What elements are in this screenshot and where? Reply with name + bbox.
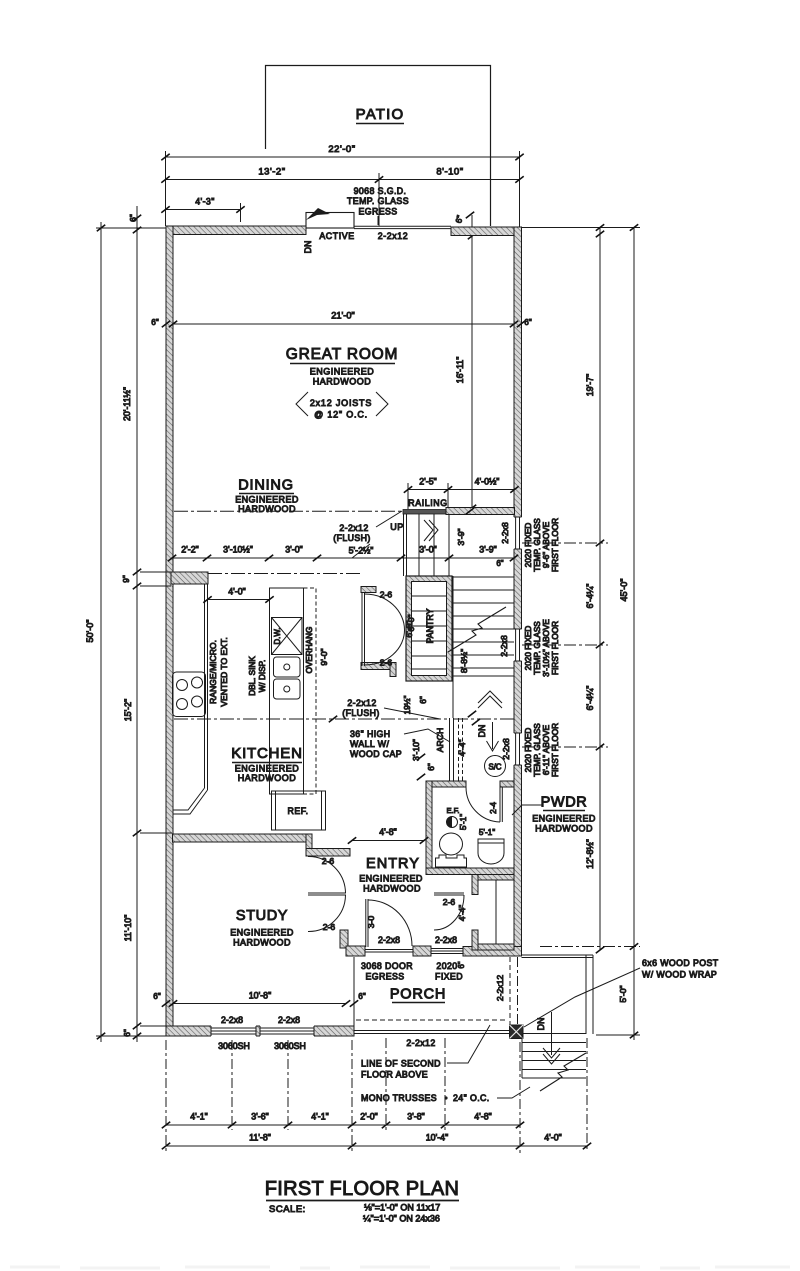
leader 36in wall xyxy=(404,729,450,742)
svg-text:3'-10½": 3'-10½" xyxy=(223,545,253,555)
svg-text:ENGINEERED: ENGINEERED xyxy=(310,367,375,377)
svg-text:D.W.: D.W. xyxy=(273,628,282,645)
svg-text:TEMP. GLASS: TEMP. GLASS xyxy=(533,518,542,572)
svg-text:HARDWOOD: HARDWOOD xyxy=(535,824,593,834)
sink basin 1 xyxy=(274,657,301,677)
svg-text:VENTED TO EXT.: VENTED TO EXT. xyxy=(219,637,229,706)
svg-text:4'-3": 4'-3" xyxy=(195,197,215,207)
svg-text:HARDWOOD: HARDWOOD xyxy=(238,504,296,514)
dim 6" right top segment ticks xyxy=(596,231,604,237)
svg-text:2-2x8: 2-2x8 xyxy=(500,522,510,544)
right ext line bottom building xyxy=(540,946,640,948)
right ext stubs dashdot xyxy=(522,542,608,544)
left ext stubs xyxy=(140,571,171,573)
wall closet top xyxy=(478,875,514,881)
powder toilet tank xyxy=(436,855,467,867)
svg-text:2-2x8: 2-2x8 xyxy=(435,935,457,945)
svg-text:FIRST FLOOR: FIRST FLOOR xyxy=(551,518,560,572)
patio outline xyxy=(266,66,491,227)
svg-text:2-6: 2-6 xyxy=(443,897,456,907)
svg-text:6'-0": 6'-0" xyxy=(406,614,416,631)
svg-text:6'-11" ABOVE: 6'-11" ABOVE xyxy=(542,724,551,775)
svg-text:13'-2": 13'-2" xyxy=(258,167,285,178)
svg-text:2-4: 2-4 xyxy=(489,802,498,814)
window right 2020 no1 xyxy=(514,517,523,549)
wall closet bottom xyxy=(478,944,514,950)
stair up chevron xyxy=(478,691,502,703)
svg-text:2-2x8: 2-2x8 xyxy=(499,635,509,657)
leader flush kitchen xyxy=(384,708,440,719)
leader flush dining down xyxy=(352,544,370,558)
svg-text:9'-0": 9'-0" xyxy=(319,648,329,665)
svg-text:2-2x8: 2-2x8 xyxy=(378,935,400,945)
leader wood post xyxy=(524,968,640,1027)
svg-text:ACTIVE: ACTIVE xyxy=(319,231,354,241)
dim line 4'-3" xyxy=(166,209,241,211)
wall study top jog xyxy=(306,834,312,856)
wall 36in high wall xyxy=(449,718,451,781)
burner 4 xyxy=(192,696,203,707)
svg-text:PORCH: PORCH xyxy=(390,987,446,1003)
svg-text:SCALE:: SCALE: xyxy=(269,1204,306,1215)
svg-text:5'-2½": 5'-2½" xyxy=(349,546,374,556)
island overhang dashed xyxy=(304,588,317,794)
svg-text:@ 12" O.C.: @ 12" O.C. xyxy=(314,410,368,420)
svg-text:2020 FIXED: 2020 FIXED xyxy=(524,523,533,568)
svg-text:4'-0": 4'-0" xyxy=(544,1133,562,1143)
svg-text:3'-10½" ABOVE: 3'-10½" ABOVE xyxy=(542,619,551,677)
wall kitchen door stub bottom jog xyxy=(390,663,396,677)
dim row y558 xyxy=(172,557,514,559)
svg-text:3-0: 3-0 xyxy=(366,916,376,929)
svg-text:6": 6" xyxy=(151,318,159,327)
svg-text:2-2x12: 2-2x12 xyxy=(347,698,376,708)
svg-text:2020 FIXED: 2020 FIXED xyxy=(524,728,533,773)
left ext line top xyxy=(96,227,166,229)
svg-text:3'-8": 3'-8" xyxy=(407,1112,425,1122)
svg-text:8'-8½": 8'-8½" xyxy=(459,649,469,673)
wall railing xyxy=(403,510,446,515)
kitchen pantry door arc bottom xyxy=(365,630,405,665)
patio label underline xyxy=(356,123,404,125)
pantry shelves xyxy=(412,595,447,597)
wall study bottom xyxy=(166,1026,354,1036)
dn arrow hall xyxy=(492,722,494,749)
svg-text:6'-4¼": 6'-4¼" xyxy=(585,584,595,609)
burner 3 xyxy=(177,699,188,710)
stair break line xyxy=(448,607,506,652)
svg-text:HARDWOOD: HARDWOOD xyxy=(238,773,297,783)
svg-text:36" HIGH: 36" HIGH xyxy=(350,729,391,739)
svg-text:LINE OF SECOND: LINE OF SECOND xyxy=(361,1059,441,1069)
svg-text:PWDR: PWDR xyxy=(541,795,588,811)
svg-text:6'-4¼": 6'-4¼" xyxy=(585,686,595,711)
svg-text:4'-8": 4'-8" xyxy=(474,1112,492,1122)
svg-text:12'-8½": 12'-8½" xyxy=(585,839,595,869)
svg-text:RAILING: RAILING xyxy=(408,498,447,508)
svg-text:2-2x12: 2-2x12 xyxy=(495,975,505,1001)
svg-text:6": 6" xyxy=(496,559,503,568)
svg-text:4'-0": 4'-0" xyxy=(228,587,246,597)
dim row2 bottom xyxy=(166,1145,587,1147)
svg-text:FLOOR ABOVE: FLOOR ABOVE xyxy=(361,1070,428,1080)
sliding door panel xyxy=(306,213,354,229)
svg-text:FIRST FLOOR: FIRST FLOOR xyxy=(551,723,560,777)
porch west edge xyxy=(353,957,355,1030)
svg-text:2-2x8: 2-2x8 xyxy=(501,738,511,760)
svg-text:DBL. SINK: DBL. SINK xyxy=(248,656,257,696)
svg-text:W/ WOOD WRAP: W/ WOOD WRAP xyxy=(642,970,717,980)
dim line 22'-0" xyxy=(166,156,520,158)
sliding door flag xyxy=(306,208,330,220)
wall entry south segB xyxy=(413,946,431,956)
fridge box xyxy=(272,791,326,830)
vertical dim line 16'-11" xyxy=(471,215,473,509)
svg-text:4'-1": 4'-1" xyxy=(190,1112,208,1122)
fan symbol xyxy=(447,817,458,828)
svg-text:5'-0": 5'-0" xyxy=(618,985,628,1002)
joist arrow right xyxy=(376,392,388,416)
svg-text:FIRST FLOOR: FIRST FLOOR xyxy=(551,621,560,675)
svg-text:HARDWOOD: HARDWOOD xyxy=(233,938,291,948)
stair main east edge xyxy=(452,576,454,718)
svg-text:9068 S.G.D.: 9068 S.G.D. xyxy=(354,186,407,196)
study doors panel xyxy=(308,892,346,894)
wall powder top left xyxy=(426,781,466,787)
svg-text:HARDWOOD: HARDWOOD xyxy=(363,884,421,894)
dim extension line left wall top xyxy=(165,151,167,226)
svg-text:KITCHEN: KITCHEN xyxy=(231,745,302,762)
wall left outer xyxy=(166,226,173,1036)
railing dim lines xyxy=(407,483,409,509)
svg-text:11'-10": 11'-10" xyxy=(123,915,133,942)
svg-text:ARCH: ARCH xyxy=(435,728,445,752)
svg-text:2'-0": 2'-0" xyxy=(360,1112,378,1122)
svg-text:TEMP. GLASS: TEMP. GLASS xyxy=(533,723,542,777)
svg-text:DINING: DINING xyxy=(238,478,294,494)
svg-text:2-6: 2-6 xyxy=(322,856,335,866)
svg-text:REF.: REF. xyxy=(287,806,308,816)
svg-text:5'-1": 5'-1" xyxy=(479,828,495,837)
svg-text:24" O.C.: 24" O.C. xyxy=(453,1093,490,1103)
window entry 2020 fixed xyxy=(431,948,463,950)
dim extension line door split xyxy=(378,173,380,226)
svg-text:6": 6" xyxy=(123,1029,132,1037)
left ext line bottom xyxy=(96,1035,166,1037)
arch dashed lines xyxy=(458,718,460,781)
note leader sgd xyxy=(377,216,379,225)
joist arrow left xyxy=(296,392,308,416)
right ext line top xyxy=(522,227,641,229)
svg-text:20'-11½": 20'-11½" xyxy=(122,387,132,421)
svg-text:3060SH: 3060SH xyxy=(274,1041,306,1051)
svg-text:15'-2": 15'-2" xyxy=(123,699,133,721)
front door panel xyxy=(365,899,367,947)
svg-text:EGRESS: EGRESS xyxy=(365,972,404,982)
wall entry south segA xyxy=(346,946,365,956)
wall pantry outline xyxy=(406,576,452,681)
smoke detector xyxy=(485,756,506,777)
svg-text:3'-9": 3'-9" xyxy=(456,528,466,545)
svg-text:11'-8": 11'-8" xyxy=(249,1133,271,1143)
dim extension line right wall top xyxy=(519,151,521,227)
svg-text:50'-0": 50'-0" xyxy=(85,620,95,643)
svg-text:PANTRY: PANTRY xyxy=(425,608,435,643)
faint scanner strip xyxy=(10,1267,790,1268)
wall right outer xyxy=(514,227,522,948)
svg-text:HARDWOOD: HARDWOOD xyxy=(313,377,372,387)
study door arc top xyxy=(308,856,346,893)
svg-text:EGRESS: EGRESS xyxy=(358,207,397,217)
wall closet west stub upper xyxy=(472,875,478,895)
window study 3060SH no1 xyxy=(211,1026,256,1037)
wall top right xyxy=(451,227,522,236)
svg-text:4'-4": 4'-4" xyxy=(458,905,467,921)
stair flight1 treads xyxy=(418,514,420,576)
svg-text:DN: DN xyxy=(303,241,313,254)
svg-text:3068 DOOR: 3068 DOOR xyxy=(361,961,413,971)
kitchen pantry doors panel xyxy=(361,593,363,667)
svg-text:WALL W/: WALL W/ xyxy=(350,739,389,749)
stoop break line xyxy=(540,1053,586,1091)
svg-text:MONO TRUSSES: MONO TRUSSES xyxy=(361,1093,437,1103)
svg-text:16'-11": 16'-11" xyxy=(455,357,465,384)
closet rod xyxy=(495,880,497,944)
svg-text:FIXED: FIXED xyxy=(435,972,463,982)
counter front edge xyxy=(204,584,206,788)
svg-text:2-2x8: 2-2x8 xyxy=(278,1015,300,1025)
interior dim 21'-0 xyxy=(173,323,514,325)
svg-text:3'-0": 3'-0" xyxy=(285,545,303,555)
leader mono trusses xyxy=(497,1087,530,1098)
sliding door glass line xyxy=(354,225,451,227)
svg-text:45'-0": 45'-0" xyxy=(619,579,629,602)
pantry interior xyxy=(412,582,447,676)
svg-text:FIRST FLOOR PLAN: FIRST FLOOR PLAN xyxy=(265,1178,459,1200)
svg-text:2-2x12: 2-2x12 xyxy=(406,1038,435,1048)
powder door arc xyxy=(466,787,500,822)
svg-text:6": 6" xyxy=(419,696,428,704)
kitchen pantry door arc top xyxy=(365,594,405,630)
svg-text:(FLUSH): (FLUSH) xyxy=(333,533,371,543)
range cooktop xyxy=(173,672,206,717)
closet door panel xyxy=(434,892,464,894)
svg-text:OVERHANG: OVERHANG xyxy=(305,627,314,674)
svg-text:ENGINEERED: ENGINEERED xyxy=(235,495,299,505)
svg-text:5'-1": 5'-1" xyxy=(459,814,468,830)
left outer dim 50'-0 xyxy=(100,222,102,1042)
closet door arc xyxy=(434,895,464,930)
svg-text:ENGINEERED: ENGINEERED xyxy=(532,814,596,824)
stair flight1 chevron xyxy=(429,520,438,541)
svg-text:3'-9": 3'-9" xyxy=(479,545,497,555)
wall powder top right xyxy=(500,781,514,787)
dim row1 bottom xyxy=(166,1124,520,1126)
wall study top xyxy=(173,834,309,842)
svg-text:ENTRY: ENTRY xyxy=(366,856,420,872)
svg-text:6x6 WOOD POST: 6x6 WOOD POST xyxy=(642,958,719,968)
svg-text:S/C: S/C xyxy=(489,763,502,772)
svg-text:W/ DISP.: W/ DISP. xyxy=(258,660,267,693)
svg-text:UP: UP xyxy=(390,522,404,532)
svg-text:19½": 19½" xyxy=(403,695,412,714)
svg-text:TEMP. GLASS: TEMP. GLASS xyxy=(347,196,409,206)
wall study east lower stub xyxy=(340,930,348,948)
svg-text:PATIO: PATIO xyxy=(356,106,405,123)
svg-text:2-2x8: 2-2x8 xyxy=(221,1015,243,1025)
svg-text:2-2x12: 2-2x12 xyxy=(339,523,368,533)
right outer dim line 45'-0 xyxy=(633,228,635,1041)
svg-text:19'-7": 19'-7" xyxy=(585,374,595,396)
beam dashdot kitchen top xyxy=(208,573,360,575)
window study 3060SH no2 xyxy=(260,1026,314,1037)
svg-text:2-6: 2-6 xyxy=(380,658,393,668)
svg-text:22'-0": 22'-0" xyxy=(328,144,355,155)
svg-text:RANGE/MICRO.: RANGE/MICRO. xyxy=(208,640,218,704)
right ext line porch bottom xyxy=(596,1034,640,1036)
svg-text:DN: DN xyxy=(477,725,487,738)
second floor dashed line v1 xyxy=(509,957,511,1028)
svg-text:(FLUSH): (FLUSH) xyxy=(342,708,380,718)
svg-text:2'-2": 2'-2" xyxy=(181,545,199,555)
island outline xyxy=(270,588,304,794)
svg-text:6": 6" xyxy=(427,763,436,771)
powder sink xyxy=(478,839,504,864)
wall kitchen door stub top xyxy=(361,587,376,593)
burner 2 xyxy=(192,677,203,688)
leader flush dining up xyxy=(376,511,402,527)
svg-text:ENGINEERED: ENGINEERED xyxy=(235,764,300,774)
svg-text:2'-5": 2'-5" xyxy=(419,477,437,487)
dim 10'-8 study xyxy=(173,1003,346,1005)
dishwasher xyxy=(272,618,303,655)
svg-text:ENGINEERED: ENGINEERED xyxy=(230,928,294,938)
right inner dim line xyxy=(599,228,601,951)
wall powder bottom xyxy=(426,868,514,875)
burner 1 xyxy=(177,680,188,691)
front door arc xyxy=(368,900,412,946)
svg-text:E.F.: E.F. xyxy=(446,806,459,815)
svg-text:9": 9" xyxy=(122,575,131,583)
window right 2020 no2 xyxy=(514,629,523,661)
second floor dashed line v2 xyxy=(517,957,519,1028)
svg-text:2-2x12: 2-2x12 xyxy=(378,231,409,241)
svg-text:10'-8": 10'-8" xyxy=(249,991,271,1001)
stair main treads xyxy=(453,576,514,578)
powder door panel xyxy=(499,787,501,822)
svg-text:2-6: 2-6 xyxy=(380,590,393,600)
svg-text:¼"=1'-0" ON 24x36: ¼"=1'-0" ON 24x36 xyxy=(363,1214,440,1224)
svg-text:3060SH: 3060SH xyxy=(218,1041,250,1051)
svg-text:WOOD CAP: WOOD CAP xyxy=(350,749,402,759)
svg-text:9'-6" ABOVE: 9'-6" ABOVE xyxy=(542,521,551,568)
svg-text:ENGINEERED: ENGINEERED xyxy=(359,874,423,884)
svg-text:8'-10": 8'-10" xyxy=(436,167,463,178)
svg-text:4'-1": 4'-1" xyxy=(311,1112,329,1122)
wall kitchen door stub bottom xyxy=(361,663,396,670)
wall landing half-wall xyxy=(446,508,515,515)
dim line 13'-2" / 8'-10" xyxy=(166,179,520,181)
svg-text:10'-4": 10'-4" xyxy=(426,1133,448,1143)
svg-text:2020: 2020 xyxy=(436,961,457,971)
dim 4'-8 entry opening xyxy=(352,840,424,842)
wall top left xyxy=(166,226,306,235)
wall powder west xyxy=(426,781,432,874)
wall kitchen 9in stub xyxy=(171,572,208,584)
svg-text:3'-0": 3'-0" xyxy=(419,545,437,555)
svg-text:4'-8": 4'-8" xyxy=(379,827,397,837)
svg-text:2020 FIXED: 2020 FIXED xyxy=(524,626,533,671)
sink basin 2 xyxy=(274,679,301,699)
svg-text:STUDY: STUDY xyxy=(236,908,288,924)
beam dashdot dining xyxy=(174,510,403,512)
porch post 6x6 xyxy=(510,1025,524,1039)
door threshold 3068 xyxy=(365,949,413,951)
svg-text:6": 6" xyxy=(358,992,366,1001)
wall study top step xyxy=(306,849,350,857)
stoop stairs xyxy=(522,1042,586,1044)
extension dashdot drops xyxy=(165,1040,167,1153)
left inner dim line xyxy=(136,206,138,1042)
svg-text:6": 6" xyxy=(524,318,532,327)
beam dashdot kitchen bottom xyxy=(174,718,449,720)
stoop dn arrow xyxy=(551,1012,553,1055)
porch slab top edge right xyxy=(522,954,594,956)
porch right edge xyxy=(585,955,587,1034)
stair flight1 west edge xyxy=(403,514,405,576)
svg-text:4'-4": 4'-4" xyxy=(457,739,467,756)
second floor dashed line h xyxy=(356,1019,508,1021)
svg-text:6": 6" xyxy=(453,214,465,224)
counter corner diagonal xyxy=(173,788,205,810)
leader second floor line xyxy=(447,1025,490,1063)
svg-text:TEMP. GLASS: TEMP. GLASS xyxy=(533,621,542,675)
study door arc bottom xyxy=(308,895,346,932)
wall entry south segC xyxy=(463,947,522,957)
svg-text:6": 6" xyxy=(153,992,161,1001)
svg-text:6": 6" xyxy=(457,961,466,968)
wall closet west stub lower xyxy=(472,930,478,950)
svg-text:4'-0½": 4'-0½" xyxy=(475,477,500,487)
svg-text:⅛"=1'-0" ON 11x17: ⅛"=1'-0" ON 11x17 xyxy=(364,1203,440,1213)
window right 2020 no3 xyxy=(514,733,523,765)
leader pwdr xyxy=(512,805,542,815)
svg-text:3'-6": 3'-6" xyxy=(251,1112,269,1122)
dim 4'-0" kitchen xyxy=(208,599,270,601)
powder toilet bowl xyxy=(440,833,463,855)
svg-text:21'-0": 21'-0" xyxy=(331,311,354,321)
svg-text:2x12 JOISTS: 2x12 JOISTS xyxy=(310,398,372,408)
svg-text:GREAT ROOM: GREAT ROOM xyxy=(286,346,399,363)
porch front edge xyxy=(354,1030,522,1032)
svg-text:2-6: 2-6 xyxy=(323,922,336,932)
